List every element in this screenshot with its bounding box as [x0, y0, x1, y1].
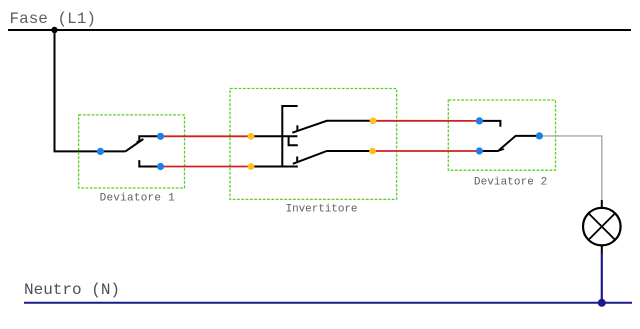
svg-text:Neutro (N): Neutro (N) [24, 281, 120, 299]
svg-text:Fase (L1): Fase (L1) [10, 10, 96, 28]
svg-text:Deviatore 1: Deviatore 1 [100, 193, 175, 205]
svg-text:Deviatore 2: Deviatore 2 [474, 176, 547, 188]
svg-text:Invertitore: Invertitore [286, 203, 358, 215]
